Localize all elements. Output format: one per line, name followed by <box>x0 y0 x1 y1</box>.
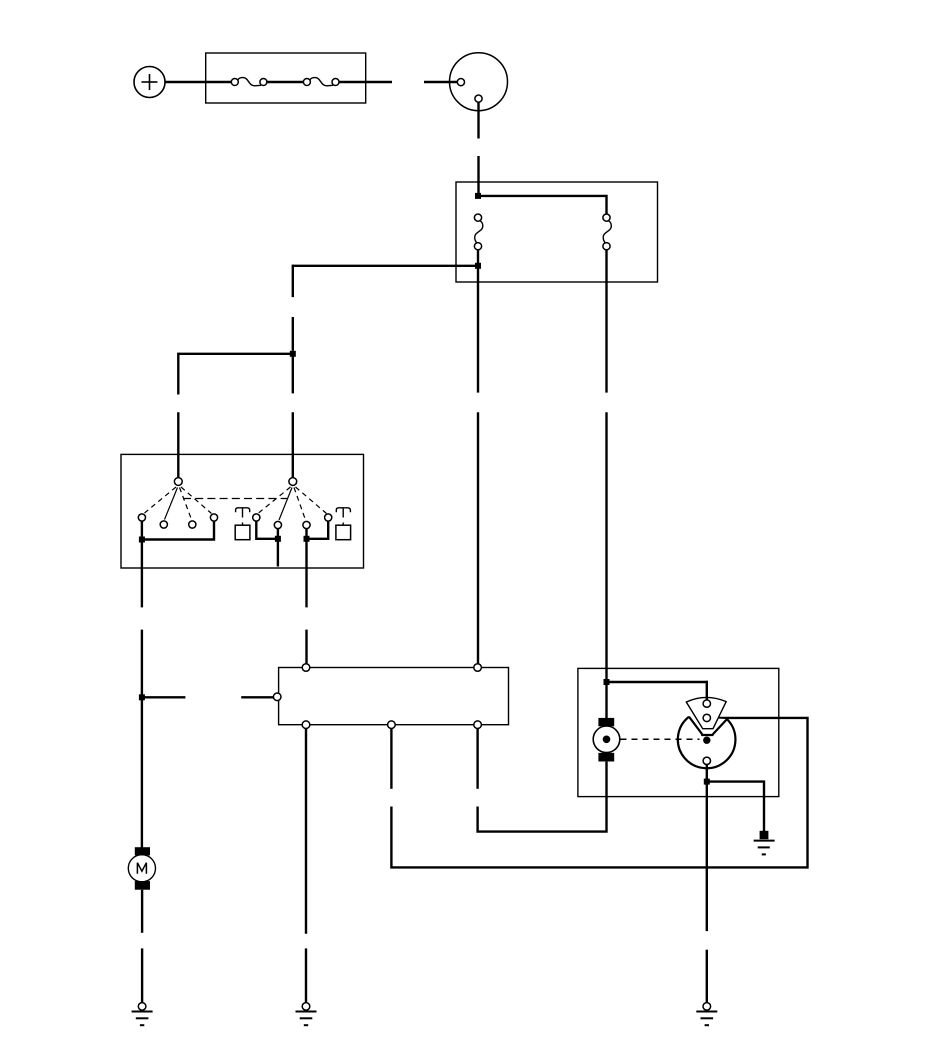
wire left strap down out of box <box>141 540 143 608</box>
cam disc center pivot <box>703 737 710 744</box>
junction at motor feed <box>139 694 145 700</box>
battery positive terminal B+ <box>134 67 165 98</box>
wire control unit to ground (left bottom, with connector gap) <box>305 729 307 1003</box>
left wiper dashed fan <box>145 487 212 520</box>
wire junction left to switch branch <box>293 265 478 267</box>
park switch cam disc <box>678 717 736 769</box>
wiper/washer switch box <box>121 454 364 568</box>
junction on left strap <box>139 537 145 543</box>
park contact terminal on disc <box>703 757 710 764</box>
wiper motor (armature) <box>593 718 620 762</box>
wire control unit right-bottom to motor low brush (with connector gap) <box>478 729 607 832</box>
junction below park contact <box>704 779 710 785</box>
wire washer motor to ground (with connector gap) <box>141 890 143 1003</box>
wire right strap down out of box <box>305 539 307 608</box>
left contact strap wiring <box>142 521 214 539</box>
wire fuse F3 down to control unit (with connector gap) <box>477 250 479 664</box>
fuse box 2 (secondary fuse box) <box>456 182 658 282</box>
wiper motor assembly box <box>578 668 779 796</box>
wire junction to cam plate terminal <box>607 681 708 683</box>
wire branch down to wiper switch (right wiper) with connector gaps <box>292 265 294 478</box>
right contact strap wiring <box>307 521 329 539</box>
fuse F3 <box>474 214 482 250</box>
ignition switch <box>424 53 508 139</box>
left switch contacts <box>138 514 217 528</box>
junction on right strap <box>304 536 310 542</box>
left wiper common terminal <box>174 478 182 486</box>
right switch contacts <box>253 514 332 529</box>
wire junction to control unit left terminal (with connector gap) <box>142 696 274 698</box>
wire junction to fuse F4 <box>478 196 607 214</box>
wire park contact down to ground (with connector gap) <box>706 765 708 1003</box>
right wiper common terminal <box>289 478 297 486</box>
wire switch to motor circuit (left, with connector gap) <box>141 630 143 849</box>
wire into cam plate terminal <box>706 681 708 700</box>
ground G1 <box>132 1003 153 1026</box>
washer contact strap <box>256 521 278 539</box>
wire fuse box to ignition switch (with connector gap) <box>339 81 392 83</box>
cam plate terminals <box>703 700 710 722</box>
fuse F4 <box>603 214 611 250</box>
washer pump symbol 2 <box>336 508 351 540</box>
assembly ground <box>754 831 775 855</box>
washer motor M <box>128 847 155 889</box>
wire battery to fuse F1 <box>165 81 232 83</box>
wire fuse F4 down to wiper motor assembly (with connector gap) <box>605 250 607 719</box>
wire control unit mid-bottom to park switch (with connector gap) <box>391 718 807 868</box>
ganged link dashed line <box>183 498 288 500</box>
junction below fuse F3 <box>475 263 481 269</box>
fuse F1 <box>231 78 267 86</box>
junction on washer strap <box>275 536 281 542</box>
control unit terminals <box>273 664 481 729</box>
cam disc notch edges <box>689 717 727 735</box>
mechanical link dashed line motor to cam <box>621 738 700 740</box>
junction at motor assembly input <box>604 679 610 685</box>
wiper control unit box <box>279 668 509 725</box>
ground G3 <box>696 1003 717 1026</box>
washer strap stub down <box>277 539 279 567</box>
fuse box (main) <box>206 53 366 103</box>
ground G2 <box>296 1003 317 1026</box>
wire ignition switch down to fuse box 2 (with connector gap) <box>477 156 479 193</box>
wire junction to assembly ground <box>707 782 764 831</box>
fuse F2 <box>303 78 339 86</box>
washer pump symbol 1 <box>235 508 250 540</box>
wire junction left to left wiper <box>178 353 292 355</box>
cam plate wedge <box>686 697 726 728</box>
junction at switch feed <box>290 351 296 357</box>
wire down to left wiper (with connector gap) <box>177 353 179 478</box>
junction at fuse box 2 input <box>475 193 481 199</box>
wire between fuses <box>267 81 303 83</box>
wire switch to control unit top (with connector gap) <box>305 630 307 664</box>
right wiper dashed fan <box>259 487 327 520</box>
